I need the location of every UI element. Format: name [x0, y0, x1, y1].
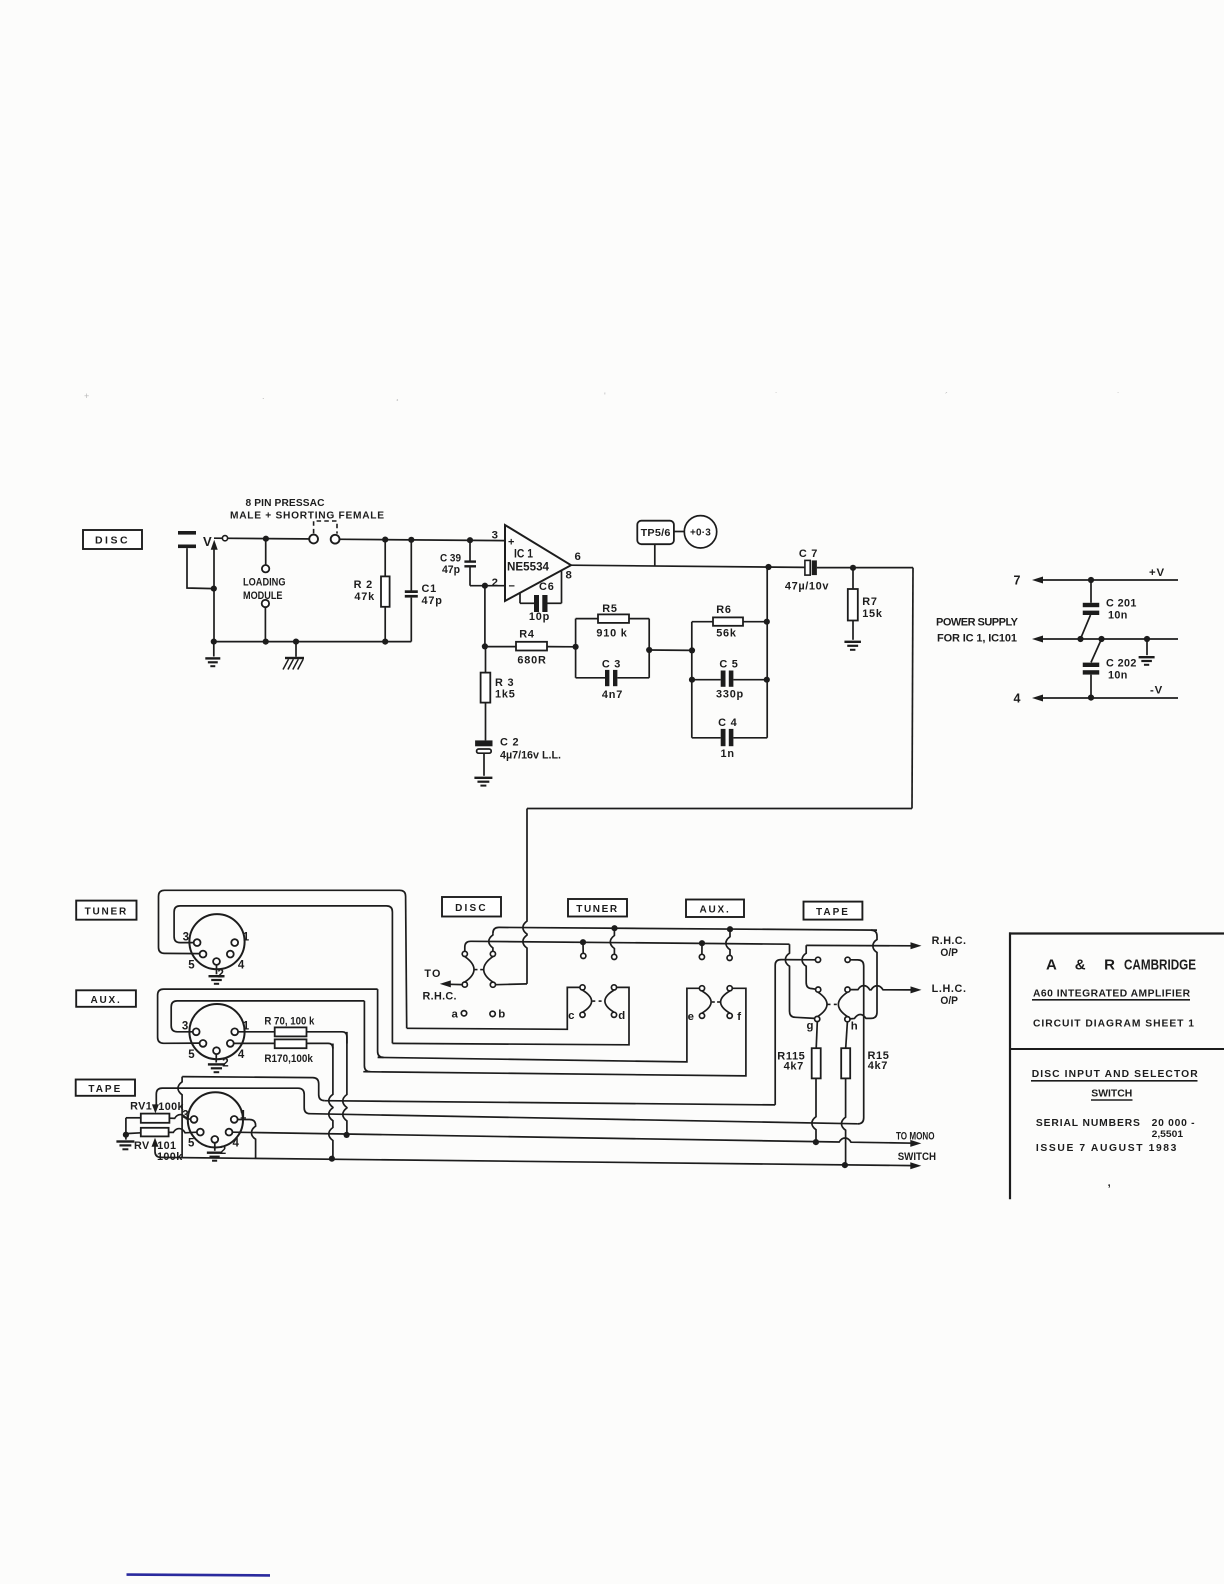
svg-text:47k: 47k	[354, 591, 375, 603]
svg-text:4: 4	[238, 1049, 245, 1061]
svg-text:a: a	[451, 1008, 458, 1020]
svg-text:R 3: R 3	[495, 677, 514, 689]
svg-text:IC 1: IC 1	[514, 549, 534, 561]
svg-text:C 201: C 201	[1106, 598, 1137, 610]
svg-text:˙: ˙	[775, 391, 778, 401]
svg-text:.: .	[262, 391, 265, 401]
svg-text:V: V	[203, 534, 212, 549]
svg-text:R 2: R 2	[354, 579, 373, 591]
svg-text:+V: +V	[1149, 567, 1165, 579]
svg-text:´: ´	[945, 391, 948, 401]
svg-text:d: d	[618, 1010, 625, 1022]
svg-text:C 5: C 5	[719, 659, 738, 671]
svg-text:8 PIN PRESSAC: 8 PIN PRESSAC	[246, 498, 326, 509]
svg-text:g: g	[807, 1020, 814, 1032]
svg-text:4n7: 4n7	[602, 689, 623, 701]
svg-text:2: 2	[220, 1145, 226, 1157]
svg-text:20 000 -: 20 000 -	[1152, 1118, 1196, 1129]
svg-text:ISSUE 7 AUGUST 1983: ISSUE 7 AUGUST 1983	[1036, 1143, 1177, 1154]
svg-text:5: 5	[188, 1049, 195, 1061]
svg-text:LOADING: LOADING	[243, 577, 286, 589]
svg-text:330p: 330p	[716, 689, 744, 701]
svg-text:R5: R5	[602, 603, 618, 615]
svg-text:−: −	[509, 581, 515, 593]
svg-text:R 70, 100 k: R 70, 100 k	[264, 1015, 315, 1027]
svg-text:4µ7/16v L.L.: 4µ7/16v L.L.	[500, 750, 561, 762]
svg-text:100k: 100k	[158, 1101, 184, 1113]
svg-text:DISC: DISC	[95, 535, 130, 547]
svg-text:4k7: 4k7	[868, 1060, 888, 1072]
svg-text:A & R: A & R	[1046, 957, 1115, 974]
svg-text:C 3: C 3	[602, 659, 621, 671]
svg-text:10n: 10n	[1108, 610, 1128, 622]
svg-text:O/P: O/P	[940, 995, 958, 1007]
svg-text:C 202: C 202	[1106, 658, 1137, 670]
svg-text:R6: R6	[716, 604, 732, 616]
svg-text:1k5: 1k5	[495, 689, 516, 701]
svg-text:C 2: C 2	[500, 737, 519, 749]
svg-text:R.H.C.: R.H.C.	[423, 991, 457, 1003]
svg-text:e: e	[688, 1011, 694, 1023]
svg-text:5: 5	[188, 1137, 195, 1149]
svg-text:7: 7	[1014, 574, 1021, 588]
svg-text:C 4: C 4	[718, 717, 737, 729]
svg-text:TUNER: TUNER	[85, 906, 128, 917]
svg-text:2: 2	[218, 969, 224, 981]
svg-text:680R: 680R	[517, 655, 546, 667]
svg-text:4k7: 4k7	[784, 1061, 804, 1073]
svg-text:TUNER: TUNER	[576, 904, 618, 915]
svg-text:910 k: 910 k	[596, 628, 627, 640]
svg-text:CAMBRIDGE: CAMBRIDGE	[1124, 957, 1196, 974]
svg-text:4: 4	[233, 1137, 240, 1149]
svg-text:3: 3	[182, 1021, 188, 1033]
svg-text:RV: RV	[134, 1140, 150, 1152]
svg-text:C 39: C 39	[440, 553, 461, 565]
svg-text:3: 3	[492, 530, 498, 542]
svg-text:+: +	[84, 391, 89, 401]
svg-text:,: ,	[1108, 1177, 1111, 1189]
svg-text:b: b	[498, 1009, 505, 1021]
svg-text:R7: R7	[862, 596, 878, 608]
svg-text:h: h	[851, 1020, 858, 1032]
svg-text:R4: R4	[519, 629, 535, 641]
svg-text:4: 4	[238, 960, 245, 972]
svg-text:1: 1	[240, 1110, 247, 1122]
svg-text:SWITCH: SWITCH	[1091, 1089, 1132, 1100]
svg-text:100k: 100k	[157, 1151, 183, 1163]
svg-text:47p: 47p	[422, 595, 443, 607]
svg-text:˙: ˙	[1117, 391, 1120, 401]
svg-text:47p: 47p	[442, 564, 460, 576]
svg-text:1n: 1n	[721, 748, 735, 760]
svg-text:R.H.C.: R.H.C.	[932, 935, 966, 947]
svg-text:DISC: DISC	[455, 903, 488, 914]
svg-text:c: c	[568, 1010, 574, 1022]
svg-text:NE5534: NE5534	[507, 562, 550, 574]
svg-text:10p: 10p	[529, 611, 550, 623]
svg-text:AUX.: AUX.	[699, 905, 730, 916]
svg-text:TO MONO: TO MONO	[896, 1130, 935, 1142]
svg-text:3: 3	[183, 932, 189, 944]
svg-text:TAPE: TAPE	[88, 1084, 122, 1095]
svg-text:R170,100k: R170,100k	[264, 1053, 313, 1065]
svg-text:MALE + SHORTING FEMALE: MALE + SHORTING FEMALE	[230, 511, 384, 522]
svg-text:TP5/6: TP5/6	[641, 528, 671, 539]
svg-text:15k: 15k	[862, 608, 883, 620]
svg-text:C1: C1	[422, 583, 438, 595]
svg-text:C6: C6	[539, 581, 555, 593]
svg-text:POWER SUPPLY: POWER SUPPLY	[936, 617, 1019, 629]
svg-text:2,5501: 2,5501	[1152, 1129, 1184, 1139]
svg-text:6: 6	[575, 551, 581, 563]
svg-text:SWITCH: SWITCH	[898, 1151, 936, 1163]
svg-text:FOR IC 1, IC101: FOR IC 1, IC101	[937, 633, 1017, 645]
svg-text:56k: 56k	[716, 628, 737, 640]
svg-text:-V: -V	[1150, 685, 1163, 697]
svg-text:4: 4	[1014, 692, 1021, 706]
svg-text:8: 8	[566, 570, 572, 582]
svg-text:O/P: O/P	[940, 947, 958, 959]
svg-text:¸: ¸	[396, 391, 399, 401]
svg-text:C 7: C 7	[799, 548, 818, 560]
svg-text:SERIAL NUMBERS: SERIAL NUMBERS	[1036, 1118, 1140, 1129]
svg-text:5: 5	[188, 960, 195, 972]
svg-text:47µ/10v: 47µ/10v	[785, 581, 829, 593]
svg-text:A60 INTEGRATED AMPLIFIER: A60 INTEGRATED AMPLIFIER	[1033, 988, 1191, 999]
svg-text:f: f	[737, 1011, 741, 1023]
svg-text:AUX.: AUX.	[90, 995, 121, 1006]
svg-text:TAPE: TAPE	[816, 907, 850, 918]
svg-text:+: +	[508, 537, 514, 549]
svg-text:1: 1	[243, 1021, 250, 1033]
svg-text:10n: 10n	[1108, 670, 1128, 682]
svg-text:1: 1	[243, 932, 250, 944]
svg-text:CIRCUIT DIAGRAM SHEET 1: CIRCUIT DIAGRAM SHEET 1	[1033, 1018, 1194, 1029]
svg-text:DISC INPUT AND SELECTOR: DISC INPUT AND SELECTOR	[1032, 1069, 1199, 1080]
svg-text:2: 2	[492, 577, 498, 589]
svg-text:L.H.C.: L.H.C.	[932, 983, 966, 995]
svg-text:RV1: RV1	[130, 1101, 152, 1113]
svg-text:+0·3: +0·3	[690, 528, 711, 539]
svg-text:': '	[604, 391, 606, 401]
svg-text:TO: TO	[424, 968, 441, 980]
